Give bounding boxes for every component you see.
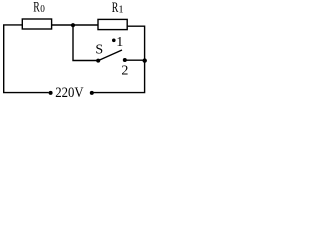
svg-text:0: 0: [40, 4, 45, 15]
svg-text:S: S: [95, 43, 103, 58]
svg-text:1: 1: [118, 5, 123, 16]
svg-text:2: 2: [121, 64, 128, 79]
svg-text:R: R: [33, 0, 40, 16]
svg-text:1: 1: [116, 35, 123, 50]
svg-text:220V: 220V: [55, 85, 84, 100]
